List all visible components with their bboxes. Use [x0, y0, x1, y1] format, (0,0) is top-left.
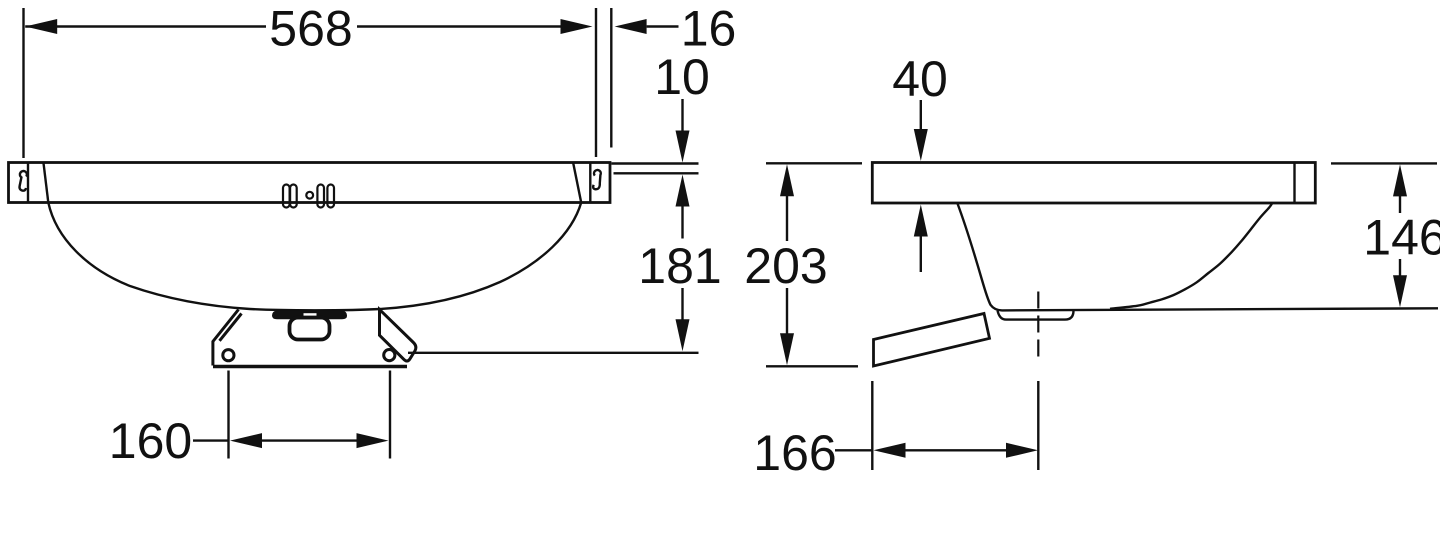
dim 40: upper arrowhead: [914, 129, 928, 161]
dim 160: right extension line: [389, 371, 391, 459]
svg-text:160: 160: [109, 413, 192, 469]
side view: angled wall bracket: [874, 314, 990, 367]
dim 568: dimension line: [25, 25, 266, 27]
dim 166: left extension line: [871, 381, 873, 470]
dim 181: lower tail: [681, 288, 683, 321]
front view: left bracket flange outer: [213, 310, 239, 366]
front view: bracket bottom plate: [213, 365, 407, 368]
dim 203: upper arrowhead: [780, 164, 794, 196]
dim 166: dimension line: [905, 449, 1008, 451]
dim 568: right extension line: [595, 8, 597, 157]
dim 160: right arrowhead: [357, 433, 389, 448]
side view: drain centerline dashed: [1037, 292, 1039, 358]
dim 160: left extension line: [227, 371, 229, 459]
front view: right bracket bolt hole: [384, 350, 395, 361]
dim 160: left arrowhead: [230, 433, 262, 448]
front view: drain flange dark band: [272, 311, 347, 320]
dim 146: upper arrowhead: [1393, 164, 1407, 196]
dim 146: top extension line: [1331, 162, 1437, 164]
svg-text:146: 146: [1363, 210, 1440, 266]
svg-text:10: 10: [654, 49, 710, 105]
front view: overflow slot 4: [327, 185, 334, 208]
dim 146: lower tail: [1399, 259, 1401, 277]
dim 166: leader from label: [835, 449, 872, 451]
front view: overflow slot 1: [283, 185, 290, 208]
side view: bowl back curve: [1110, 203, 1272, 309]
front view: bowl outline left slant through rim: [44, 163, 49, 203]
front view: overflow slot 3: [317, 185, 324, 208]
dim 203: lower arrowhead: [780, 333, 794, 365]
front view: basin rim rectangle: [9, 163, 611, 203]
dim 166: left arrowhead: [874, 443, 906, 458]
svg-text:166: 166: [753, 425, 836, 481]
side view: drain dish: [998, 311, 1074, 320]
dim 16: leader line: [647, 25, 679, 27]
dim 40: arrow tail above rim: [920, 100, 922, 131]
dim 568: left extension line: [22, 8, 24, 158]
dim 568: left arrowhead: [25, 19, 57, 34]
front view: right keyhole mounting slot: [593, 170, 601, 189]
dim 203: upper tail: [786, 196, 788, 241]
dim 203: lower tail: [786, 288, 788, 334]
dim 160: leader from label: [193, 439, 228, 441]
front view: bowl elliptical outline: [48, 203, 581, 311]
front view: right end divider: [589, 163, 591, 203]
dim 181: lower arrowhead: [676, 319, 690, 351]
front view: left bracket bolt hole: [223, 350, 234, 361]
front view: left end divider: [27, 163, 29, 203]
svg-text:181: 181: [638, 238, 721, 294]
dim 181: upper tail: [681, 206, 683, 239]
front view: overflow center hole: [306, 192, 313, 199]
dim 181: bottom reference line: [408, 352, 699, 354]
dim 16: right extension line: [610, 8, 612, 148]
dim 203: bottom extension line: [766, 365, 858, 367]
dim 10: arrowhead: [676, 131, 690, 163]
dim 146: upper tail: [1399, 196, 1401, 213]
front view: overflow slot 2: [290, 185, 297, 208]
svg-text:568: 568: [269, 0, 352, 56]
dim 568: right arrowhead: [561, 19, 593, 34]
svg-text:203: 203: [744, 238, 827, 294]
dim 40: arrow tail below rim: [920, 236, 922, 272]
side view: bowl bottom and reference line to right edge: [1002, 308, 1438, 310]
front view: left bracket flange inner: [220, 314, 242, 341]
front view: right bracket flange outer: [380, 310, 416, 362]
dim 16: arrowhead: [615, 19, 647, 34]
front view: bowl outline right slant through rim: [573, 163, 581, 203]
front view: drain flange center gap: [304, 313, 317, 318]
dim 166: right extension line: [1037, 381, 1039, 470]
dim 40: lower arrowhead: [914, 205, 928, 237]
dim 10: arrow tail: [681, 99, 683, 132]
svg-text:40: 40: [892, 51, 948, 107]
front view: left keyhole mounting slot: [20, 171, 27, 191]
dim 166: right arrowhead: [1006, 443, 1038, 458]
dim 160: dimension line: [261, 439, 358, 441]
side view: rim end cap divider: [1293, 163, 1295, 204]
dim 10: lower reference line: [614, 172, 699, 174]
side view: bowl front wall: [958, 204, 1003, 311]
dim 146: lower arrowhead: [1393, 275, 1407, 307]
dim 181: upper arrowhead: [676, 175, 690, 207]
side view: rim rectangle: [872, 163, 1315, 204]
front view: drain tailpiece: [290, 318, 330, 340]
dim 10: upper reference line: [612, 162, 699, 164]
dim 203: top extension line: [766, 162, 862, 164]
